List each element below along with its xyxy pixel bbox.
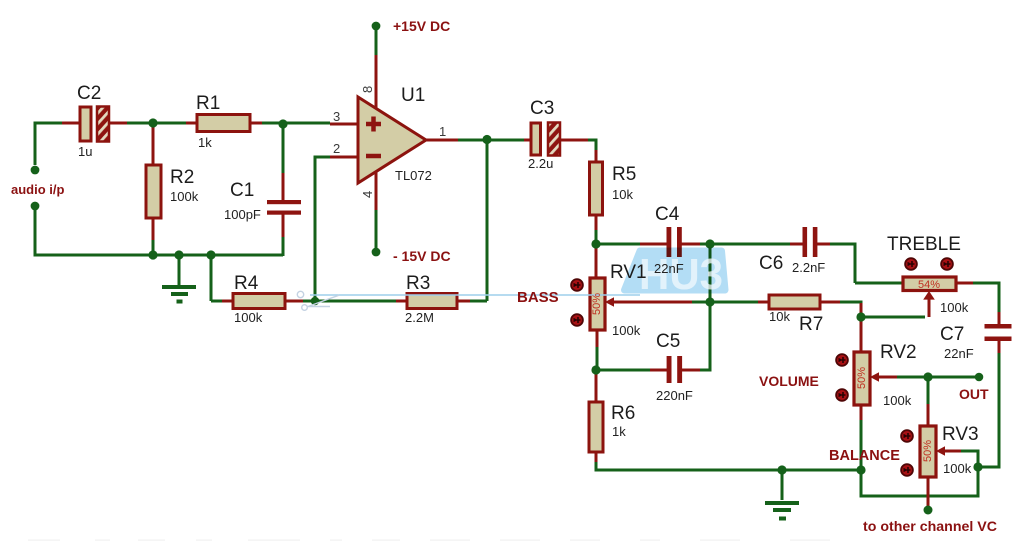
svg-text:8: 8 bbox=[360, 86, 375, 93]
svg-text:- 15V DC: - 15V DC bbox=[393, 248, 451, 264]
svg-text:U1: U1 bbox=[401, 85, 425, 106]
svg-text:C1: C1 bbox=[230, 180, 254, 201]
svg-text:+15V DC: +15V DC bbox=[393, 18, 450, 34]
svg-text:2.2M: 2.2M bbox=[405, 310, 434, 325]
svg-text:3: 3 bbox=[333, 109, 340, 124]
svg-text:RV3: RV3 bbox=[942, 424, 979, 445]
svg-text:C6: C6 bbox=[759, 253, 783, 274]
svg-text:100k: 100k bbox=[234, 310, 263, 325]
svg-text:C2: C2 bbox=[77, 83, 101, 104]
svg-text:4: 4 bbox=[360, 191, 375, 198]
svg-text:100k: 100k bbox=[940, 300, 969, 315]
svg-text:TREBLE: TREBLE bbox=[887, 234, 961, 255]
svg-text:R6: R6 bbox=[611, 403, 635, 424]
svg-text:220nF: 220nF bbox=[656, 388, 693, 403]
svg-text:100pF: 100pF bbox=[224, 207, 261, 222]
svg-text:R2: R2 bbox=[170, 167, 194, 188]
svg-text:audio i/p: audio i/p bbox=[11, 182, 65, 197]
svg-text:C7: C7 bbox=[940, 324, 964, 345]
svg-text:TL072: TL072 bbox=[395, 168, 432, 183]
svg-text:10k: 10k bbox=[612, 187, 633, 202]
svg-text:2: 2 bbox=[333, 141, 340, 156]
svg-text:R4: R4 bbox=[234, 273, 259, 294]
svg-text:1u: 1u bbox=[78, 144, 92, 159]
svg-text:BALANCE: BALANCE bbox=[829, 448, 900, 464]
svg-text:50%: 50% bbox=[856, 367, 868, 389]
svg-text:C5: C5 bbox=[656, 331, 680, 352]
svg-text:10k: 10k bbox=[769, 309, 790, 324]
svg-text:50%: 50% bbox=[591, 293, 603, 315]
svg-text:22nF: 22nF bbox=[944, 346, 974, 361]
svg-text:54%: 54% bbox=[918, 279, 940, 291]
svg-text:C4: C4 bbox=[655, 204, 680, 225]
svg-text:100k: 100k bbox=[943, 461, 972, 476]
svg-text:RV2: RV2 bbox=[880, 342, 917, 363]
svg-text:OUT: OUT bbox=[959, 386, 989, 402]
svg-text:2.2nF: 2.2nF bbox=[792, 260, 825, 275]
svg-text:100k: 100k bbox=[612, 323, 641, 338]
svg-text:2.2u: 2.2u bbox=[528, 156, 553, 171]
svg-text:1k: 1k bbox=[198, 135, 212, 150]
svg-text:C3: C3 bbox=[530, 98, 554, 119]
svg-text:R5: R5 bbox=[612, 164, 636, 185]
svg-text:RV1: RV1 bbox=[610, 262, 647, 283]
svg-text:R3: R3 bbox=[406, 273, 430, 294]
svg-text:100k: 100k bbox=[883, 393, 912, 408]
svg-text:1k: 1k bbox=[612, 424, 626, 439]
svg-text:BASS: BASS bbox=[517, 289, 559, 306]
svg-text:R1: R1 bbox=[196, 93, 220, 114]
svg-text:VOLUME: VOLUME bbox=[759, 373, 819, 389]
svg-text:100k: 100k bbox=[170, 189, 199, 204]
svg-text:to other channel VC: to other channel VC bbox=[863, 518, 997, 534]
svg-text:1: 1 bbox=[439, 124, 446, 139]
svg-text:22nF: 22nF bbox=[654, 261, 684, 276]
svg-text:R7: R7 bbox=[799, 314, 823, 335]
svg-text:50%: 50% bbox=[922, 440, 934, 462]
